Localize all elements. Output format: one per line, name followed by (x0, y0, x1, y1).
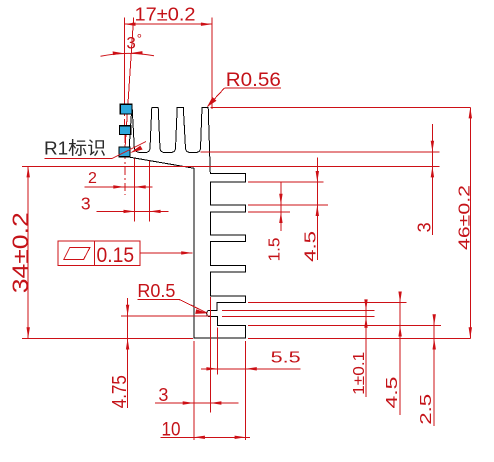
dimension 17±0.2 (124, 5, 212, 110)
dimension 4.5 (right) (384, 292, 402, 416)
centerline through markers (124, 103, 127, 195)
long extension line y=166.3 (22, 165, 440, 167)
marker squares (blue) (119, 104, 132, 157)
dimension 3 (upper-left) (81, 161, 169, 222)
svg-text:R0.5: R0.5 (137, 281, 175, 301)
dimension 1.5 (fin thickness) (266, 182, 283, 262)
extension lines for 1±0.1 and 4.5 right (222, 310, 374, 312)
extension line y=151.9 (fin root plane) (201, 151, 440, 153)
svg-text:3: 3 (158, 385, 168, 405)
dimension 46±0.2 (211, 107, 474, 338)
label R0.56 with leader (207, 70, 281, 107)
svg-text:4.5: 4.5 (384, 376, 401, 408)
dimension 2 (upper-left) (85, 159, 153, 222)
3° draft angle (101, 18, 155, 151)
dimension 3 (bottom) (155, 297, 239, 440)
dimension 34±0.2 (8, 166, 33, 338)
dimension 1±0.1 (351, 299, 368, 397)
svg-text:2: 2 (88, 170, 97, 187)
dimension 5.5 (201, 328, 301, 375)
svg-text:5.5: 5.5 (271, 350, 301, 367)
dimension 2.5 (418, 314, 436, 426)
heatsink profile outline (129, 105, 246, 339)
svg-text:34±0.2: 34±0.2 (8, 212, 33, 293)
parallelism tolerance frame 0.15 (58, 241, 192, 267)
label R0.5 with leader (137, 281, 207, 314)
extension line y=315.8 for 4.75 (121, 315, 211, 317)
svg-text:17±0.2: 17±0.2 (135, 5, 196, 25)
dimension 10 (bottom) (161, 341, 250, 441)
dimension 4.5 (slot) (303, 158, 320, 262)
svg-text:3: 3 (81, 194, 91, 214)
dimension 4.75 (109, 298, 131, 408)
extension lines fin1b bottom / fin2b top/bottom (248, 181, 324, 183)
dimension 3 (right top) (415, 124, 435, 235)
svg-text:°: ° (137, 31, 142, 46)
svg-text:0.15: 0.15 (97, 244, 135, 267)
label R1标识 with leader (44, 139, 146, 159)
bottom extension line y=338.4 (22, 337, 193, 339)
svg-text:R1标识: R1标识 (44, 139, 106, 159)
svg-text:46±0.2: 46±0.2 (456, 185, 473, 250)
svg-text:2.5: 2.5 (418, 394, 435, 425)
svg-text:1.5: 1.5 (266, 237, 283, 261)
svg-text:3: 3 (415, 222, 435, 232)
